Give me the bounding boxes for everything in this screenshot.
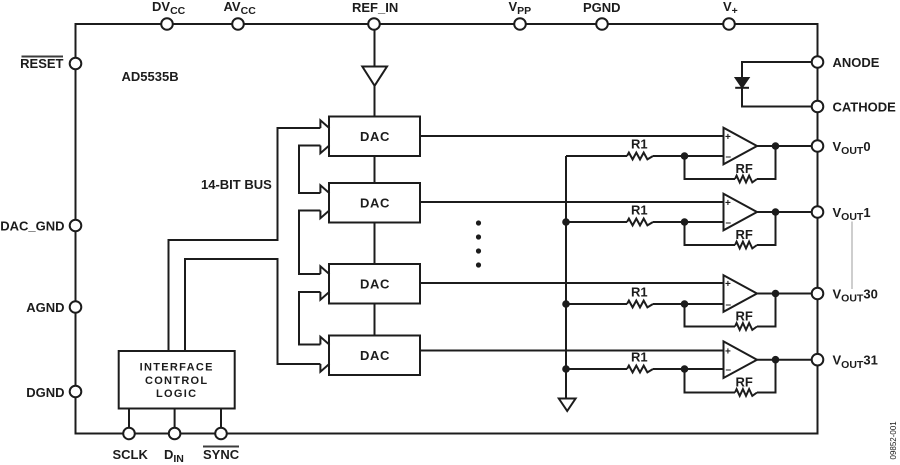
resistor R1 (row 1) [627, 153, 653, 160]
wire inverting input row 2 [566, 221, 627, 223]
wire ICL stub SCLK [128, 409, 130, 429]
svg-text:R1: R1 [631, 350, 648, 365]
svg-text:LOGIC: LOGIC [156, 388, 197, 400]
wire R1 to op-amp A2 inverting input [653, 221, 724, 223]
wire ANODE to diode [742, 62, 812, 78]
svg-text:VOUT0: VOUT0 [833, 139, 871, 157]
pin DGND [70, 386, 82, 398]
resistor R1 (row 3) [627, 301, 653, 308]
wire bus loop DAC3 to DAC4 [299, 292, 320, 345]
ground symbol [559, 399, 576, 412]
buffer amplifier U1 [362, 67, 387, 86]
svg-text:–: – [726, 365, 732, 376]
ellipsis continuation dots [476, 220, 481, 267]
pin VOUT30 [812, 288, 824, 300]
svg-text:INTERFACE: INTERFACE [140, 362, 214, 374]
svg-text:AD5535B: AD5535B [122, 69, 179, 84]
wire ICL to bus B [185, 259, 320, 364]
svg-text:RF: RF [736, 227, 753, 242]
pin DIN [169, 428, 181, 440]
resistor R1 (row 4) [627, 366, 653, 373]
pin CATHODE [812, 101, 824, 113]
svg-text:DAC: DAC [360, 277, 390, 292]
wire inverting input row 4 [566, 368, 627, 370]
pin AGND [70, 301, 82, 313]
pin AVCC [232, 18, 244, 30]
wire DAC4 output to op-amp A4 noninverting input [420, 350, 724, 352]
svg-text:VOUT1: VOUT1 [833, 205, 871, 223]
wire inverting input row 3 [566, 303, 627, 305]
svg-text:VPP: VPP [509, 0, 532, 17]
wire inverting bus vertical to ground [565, 156, 567, 398]
pin DAC_GND [70, 220, 82, 232]
wire R1 to op-amp A3 inverting input [653, 303, 724, 305]
bus chevron into DAC3 lower [320, 292, 329, 300]
pin V+ [723, 18, 735, 30]
svg-text:–: – [726, 218, 732, 229]
op-amp A2 [724, 194, 758, 231]
svg-text:09852-001: 09852-001 [889, 421, 898, 460]
wire op-amp A3 output to pin VOUT30 [757, 293, 812, 295]
connector line between VOUT1 and VOUT30 labels [851, 222, 853, 290]
pin SYNC [215, 428, 227, 440]
svg-text:DGND: DGND [26, 385, 64, 400]
pin VOUT31 [812, 354, 824, 366]
wire feedback down leg row 2 [685, 222, 736, 245]
bus chevron into DAC2 lower [320, 210, 329, 218]
DAC block 1 [329, 117, 420, 157]
op-amp A3 [724, 275, 758, 312]
wire feedback down leg row 4 [685, 369, 736, 393]
wire inverting input row 1 [566, 155, 627, 157]
wire op-amp A2 output to pin VOUT1 [757, 211, 812, 213]
svg-text:+: + [725, 198, 731, 209]
svg-text:SYNC: SYNC [203, 447, 240, 462]
svg-text:SCLK: SCLK [113, 447, 149, 462]
bus chevron into DAC4 lower [320, 364, 329, 372]
pin VOUT0 [812, 140, 824, 152]
wire diode to CATHODE [742, 88, 812, 107]
junction node row 4 on common bus [562, 365, 570, 373]
interface control logic block [119, 351, 235, 409]
wire ICL stub DIN [174, 409, 176, 429]
svg-text:14-BIT BUS: 14-BIT BUS [201, 177, 272, 192]
junction node row 2 inverting input [681, 218, 689, 226]
pin RESET [70, 58, 82, 70]
svg-text:–: – [726, 152, 732, 163]
junction node row 2 on common bus [562, 218, 570, 226]
wire DAC2 to DAC3 [374, 223, 376, 265]
svg-text:VOUT31: VOUT31 [833, 353, 878, 371]
DAC block 2 [329, 183, 420, 223]
pin REF_IN [368, 18, 380, 30]
junction node row 3 output [772, 290, 780, 298]
svg-text:R1: R1 [631, 137, 648, 152]
svg-text:RF: RF [736, 375, 753, 390]
op-amp A1 [724, 128, 758, 165]
wire op-amp A4 output to pin VOUT31 [757, 359, 812, 361]
bus chevron into DAC1 lower [320, 145, 329, 153]
svg-text:CONTROL: CONTROL [145, 375, 208, 387]
wire DAC1 output to op-amp A1 noninverting input [420, 135, 724, 137]
wire DAC3 to DAC4 [374, 304, 376, 336]
svg-text:RF: RF [736, 161, 753, 176]
resistor RF (row 4) [735, 389, 757, 396]
wire feedback up leg row 3 [757, 294, 776, 327]
junction node row 1 output [772, 142, 780, 150]
wire DAC3 output to op-amp A3 noninverting input [420, 282, 724, 284]
svg-text:+: + [725, 279, 731, 290]
wire feedback down leg row 1 [685, 156, 736, 179]
svg-text:DAC_GND: DAC_GND [0, 219, 64, 234]
resistor RF (row 2) [735, 242, 757, 249]
junction node row 3 inverting input [681, 300, 689, 308]
svg-text:AVCC: AVCC [224, 0, 257, 17]
svg-text:CATHODE: CATHODE [833, 100, 897, 115]
wire DAC2 output to op-amp A2 noninverting input [420, 201, 724, 203]
svg-text:DAC: DAC [360, 348, 390, 363]
svg-text:RF: RF [736, 309, 753, 324]
svg-text:DIN: DIN [164, 447, 184, 465]
bus chevron into DAC1 upper [320, 120, 329, 128]
svg-text:RESET: RESET [20, 56, 63, 71]
svg-text:+: + [725, 132, 731, 143]
op-amp A4 [724, 341, 758, 378]
svg-text:+: + [725, 347, 731, 358]
junction node row 4 inverting input [681, 365, 689, 373]
wire ICL to bus A [169, 128, 321, 351]
resistor R1 (row 2) [627, 219, 653, 226]
wire bus loop DAC1 to DAC2 [299, 146, 320, 194]
pin ANODE [812, 56, 824, 68]
svg-text:V+: V+ [723, 0, 738, 17]
svg-text:R1: R1 [631, 203, 648, 218]
svg-text:AGND: AGND [26, 300, 64, 315]
junction node row 4 output [772, 356, 780, 364]
pin VOUT1 [812, 206, 824, 218]
DAC block 4 [329, 336, 420, 376]
resistor RF (row 3) [735, 323, 757, 330]
junction node row 1 inverting input [681, 152, 689, 160]
wire bus loop DAC2 to DAC3 [299, 211, 320, 275]
wire DAC1 to DAC2 [374, 156, 376, 183]
pin SCLK [123, 428, 135, 440]
diode D1 [736, 78, 749, 87]
pin PGND [596, 18, 608, 30]
bus chevron into DAC2 upper [320, 185, 329, 193]
svg-text:DAC: DAC [360, 129, 390, 144]
chip outline border [76, 24, 818, 434]
wire R1 to op-amp A1 inverting input [653, 155, 724, 157]
wire feedback down leg row 3 [685, 304, 736, 327]
junction node row 3 on common bus [562, 300, 570, 308]
svg-text:–: – [726, 300, 732, 311]
bus chevron into DAC3 upper [320, 266, 329, 274]
wire ICL stub SYNC [220, 409, 222, 429]
svg-text:PGND: PGND [583, 0, 621, 15]
wire feedback up leg row 4 [757, 360, 776, 393]
wire REF_IN to buffer [374, 30, 376, 66]
pin DVCC [161, 18, 173, 30]
svg-text:R1: R1 [631, 285, 648, 300]
wire op-amp A1 output to pin VOUT0 [757, 145, 812, 147]
svg-text:REF_IN: REF_IN [352, 0, 398, 15]
resistor RF (row 1) [735, 176, 757, 183]
junction node row 2 output [772, 208, 780, 216]
svg-text:VOUT30: VOUT30 [833, 287, 878, 305]
wire feedback up leg row 1 [757, 146, 776, 179]
DAC block 3 [329, 264, 420, 304]
svg-text:DAC: DAC [360, 196, 390, 211]
svg-text:DVCC: DVCC [152, 0, 186, 17]
svg-text:ANODE: ANODE [833, 55, 880, 70]
wire feedback up leg row 2 [757, 212, 776, 245]
pin VPP [514, 18, 526, 30]
wire buffer to DAC1 [374, 86, 376, 117]
bus chevron into DAC4 upper [320, 337, 329, 345]
wire R1 to op-amp A4 inverting input [653, 368, 724, 370]
